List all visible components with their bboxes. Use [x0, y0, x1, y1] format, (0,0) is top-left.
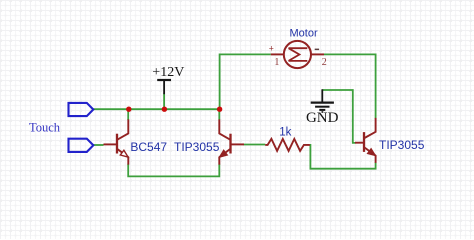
wire GND to Q3 base [322, 90, 355, 143]
junction dot at Q1 collector [126, 107, 131, 112]
motor minus mark [315, 49, 319, 51]
svg-text:+: + [269, 43, 274, 53]
svg-text:2: 2 [322, 57, 327, 68]
power +12V terminal [157, 80, 171, 94]
wire rail corner up to motor plus [220, 54, 271, 109]
touch pad terminal 2 [69, 139, 94, 152]
svg-text:Motor: Motor [290, 28, 318, 40]
junction dot at Q2 collector [217, 107, 222, 112]
svg-text:BC547: BC547 [130, 140, 167, 154]
junction dot at +12V [162, 107, 167, 112]
wire motor minus down to Q3 collector [324, 54, 376, 118]
svg-text:GND: GND [306, 110, 339, 126]
Q3 emitter filled arrow [368, 149, 376, 156]
touch pad terminal 1 [69, 103, 94, 116]
wire Q1 emitter to Q2 emitter bottom U [128, 164, 219, 177]
wire Q2 collector stub [218, 109, 220, 119]
transistor Q3 TIP3055 [355, 118, 376, 163]
svg-text:+12V: +12V [152, 65, 184, 80]
svg-text:TIP3055: TIP3055 [379, 138, 425, 152]
transistor Q1 BC547 [104, 119, 129, 164]
wire top rail [93, 108, 219, 110]
ground [311, 89, 334, 112]
wire +12V stub [163, 94, 165, 110]
Q1 emitter open arrow [120, 150, 128, 157]
motor M1 [271, 41, 324, 68]
wire Q1 collector stub [127, 109, 129, 120]
resistor R1 1k [265, 139, 310, 151]
svg-text:1: 1 [274, 57, 279, 68]
wire resistor to Q3 emitter [310, 145, 376, 169]
svg-text:1k: 1k [279, 126, 291, 138]
wire pad2 to Q1 base [93, 144, 103, 146]
Q2 emitter filled arrow [220, 150, 228, 157]
svg-text:Touch: Touch [29, 120, 61, 134]
svg-text:TIP3055: TIP3055 [174, 140, 220, 154]
wire Q2 base to resistor [244, 144, 266, 146]
transistor Q2 TIP3055 (mirrored) [219, 119, 244, 164]
